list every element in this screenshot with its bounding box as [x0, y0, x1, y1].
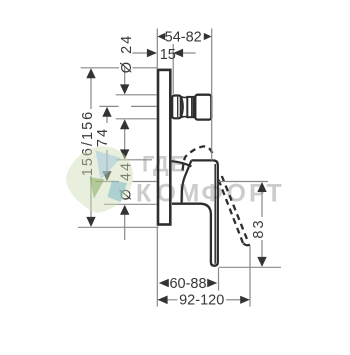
dimension Ø44 (handle diameter): extension lines, arrows, label	[104, 149, 157, 240]
watermark logo teal wedge	[108, 181, 128, 203]
dashed lever tip cap	[243, 243, 250, 245]
dimension 15 (plate depth): tails, arrows, extension line, label	[132, 44, 195, 94]
lever handle left edge	[182, 160, 192, 203]
dashed lever in lowered position, rear edge	[219, 180, 244, 244]
dimension 83 (handle length): reference lines, arrows, label	[219, 182, 281, 268]
wall plate (escutcheon, side view)	[158, 70, 170, 225]
union neck rear-face curve	[181, 96, 183, 117]
dimension 74 (union axis to handle axis): line, arrows, label	[95, 107, 112, 181]
mixer body white fill (plate, outlet union, lever handle)	[158, 70, 218, 266]
lever handle inner contour line	[214, 164, 216, 264]
watermark logo green wedge	[90, 177, 105, 199]
svg-text:92-120: 92-120	[179, 293, 224, 309]
union end cap (Ø24 hose connector)	[195, 95, 211, 120]
watermark logo blue wedge	[96, 151, 122, 181]
svg-text:54-82: 54-82	[165, 30, 202, 46]
svg-text:15: 15	[160, 47, 176, 63]
dimension 54-82: extension lines, arrows, label	[157, 29, 211, 161]
watermark logo leaf	[66, 146, 133, 212]
union middle ring	[187, 97, 193, 117]
dimension 156/156 (plate size): extension lines, arrows, label	[78, 68, 159, 228]
svg-text:74: 74	[95, 127, 111, 147]
union neck bottom profile	[181, 116, 187, 119]
dashed lever in raised position	[183, 146, 214, 170]
dimension Ø24 (union diameter): extension lines, centerline, arrows, label	[99, 34, 157, 151]
handle sleeve top edge	[172, 161, 192, 166]
dimension 92-120: tails, extension line, arrows, label	[158, 246, 250, 309]
union neck top profile	[181, 96, 187, 99]
handle sleeve bottom edge and lever blade front edge	[172, 204, 214, 266]
dashed lever in lowered position, front edge	[222, 176, 248, 240]
handle pivot axis centerline (left of plate)	[95, 181, 157, 183]
svg-text:83: 83	[251, 218, 267, 238]
svg-text:60-88: 60-88	[169, 276, 206, 292]
svg-text:ГДЕ: ГДЕ	[142, 151, 185, 176]
dimension 60-88: extension lines, arrows, label	[157, 227, 218, 307]
lever handle grip outline (top, right edge, bottom tip)	[191, 160, 217, 265]
outlet union flange ring	[172, 96, 181, 119]
